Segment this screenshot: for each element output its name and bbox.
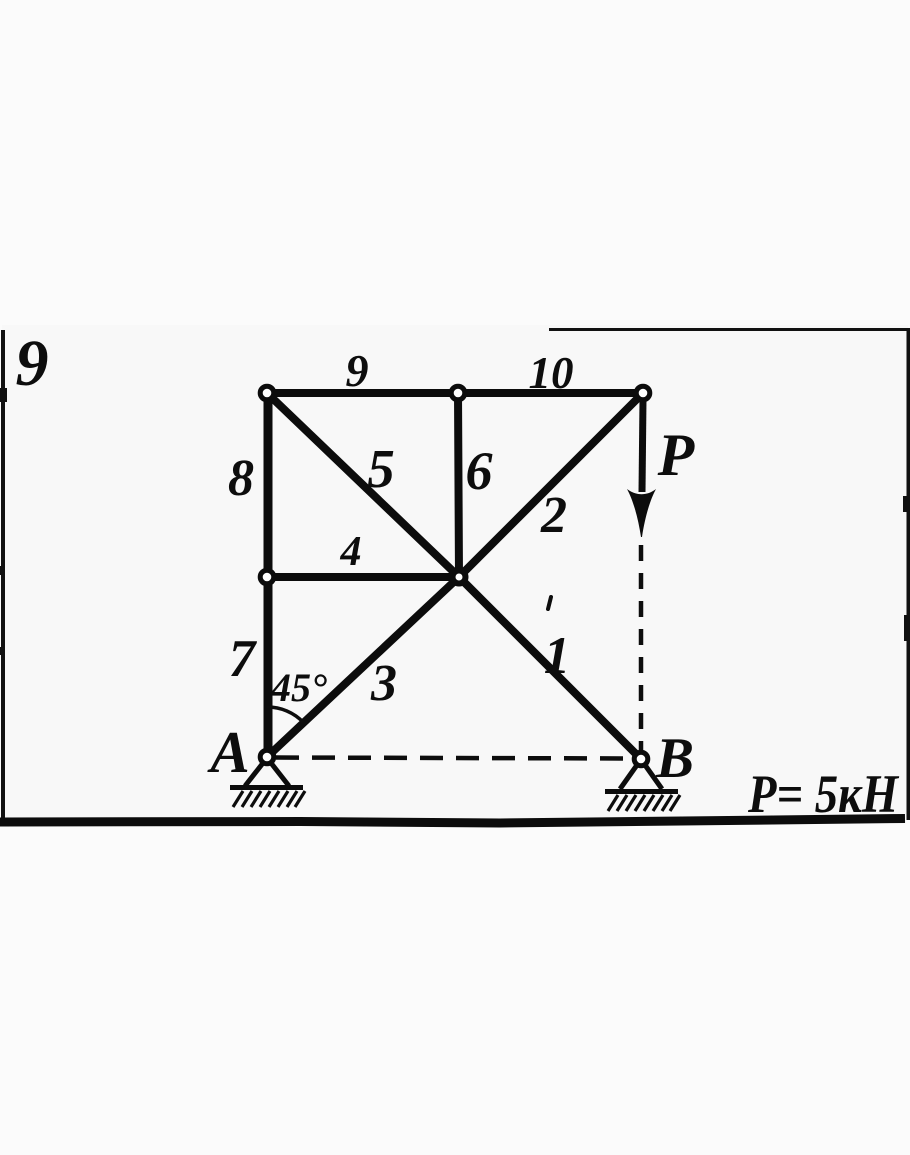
svg-text:2: 2: [540, 487, 567, 544]
svg-text:7: 7: [229, 630, 258, 688]
svg-text:P= 5кН: P= 5кН: [747, 764, 900, 824]
svg-text:9: 9: [346, 345, 369, 396]
svg-text:45°: 45°: [270, 665, 327, 710]
svg-text:6: 6: [466, 441, 493, 501]
svg-text:10: 10: [529, 348, 574, 398]
svg-text:P: P: [657, 422, 696, 488]
svg-text:9: 9: [16, 327, 49, 400]
svg-text:B: B: [655, 727, 694, 790]
svg-text:1: 1: [544, 627, 571, 685]
svg-text:A: A: [206, 719, 249, 785]
svg-text:4: 4: [340, 529, 362, 575]
svg-text:3: 3: [370, 655, 397, 712]
svg-text:5: 5: [367, 438, 395, 499]
svg-text:8: 8: [228, 450, 254, 507]
